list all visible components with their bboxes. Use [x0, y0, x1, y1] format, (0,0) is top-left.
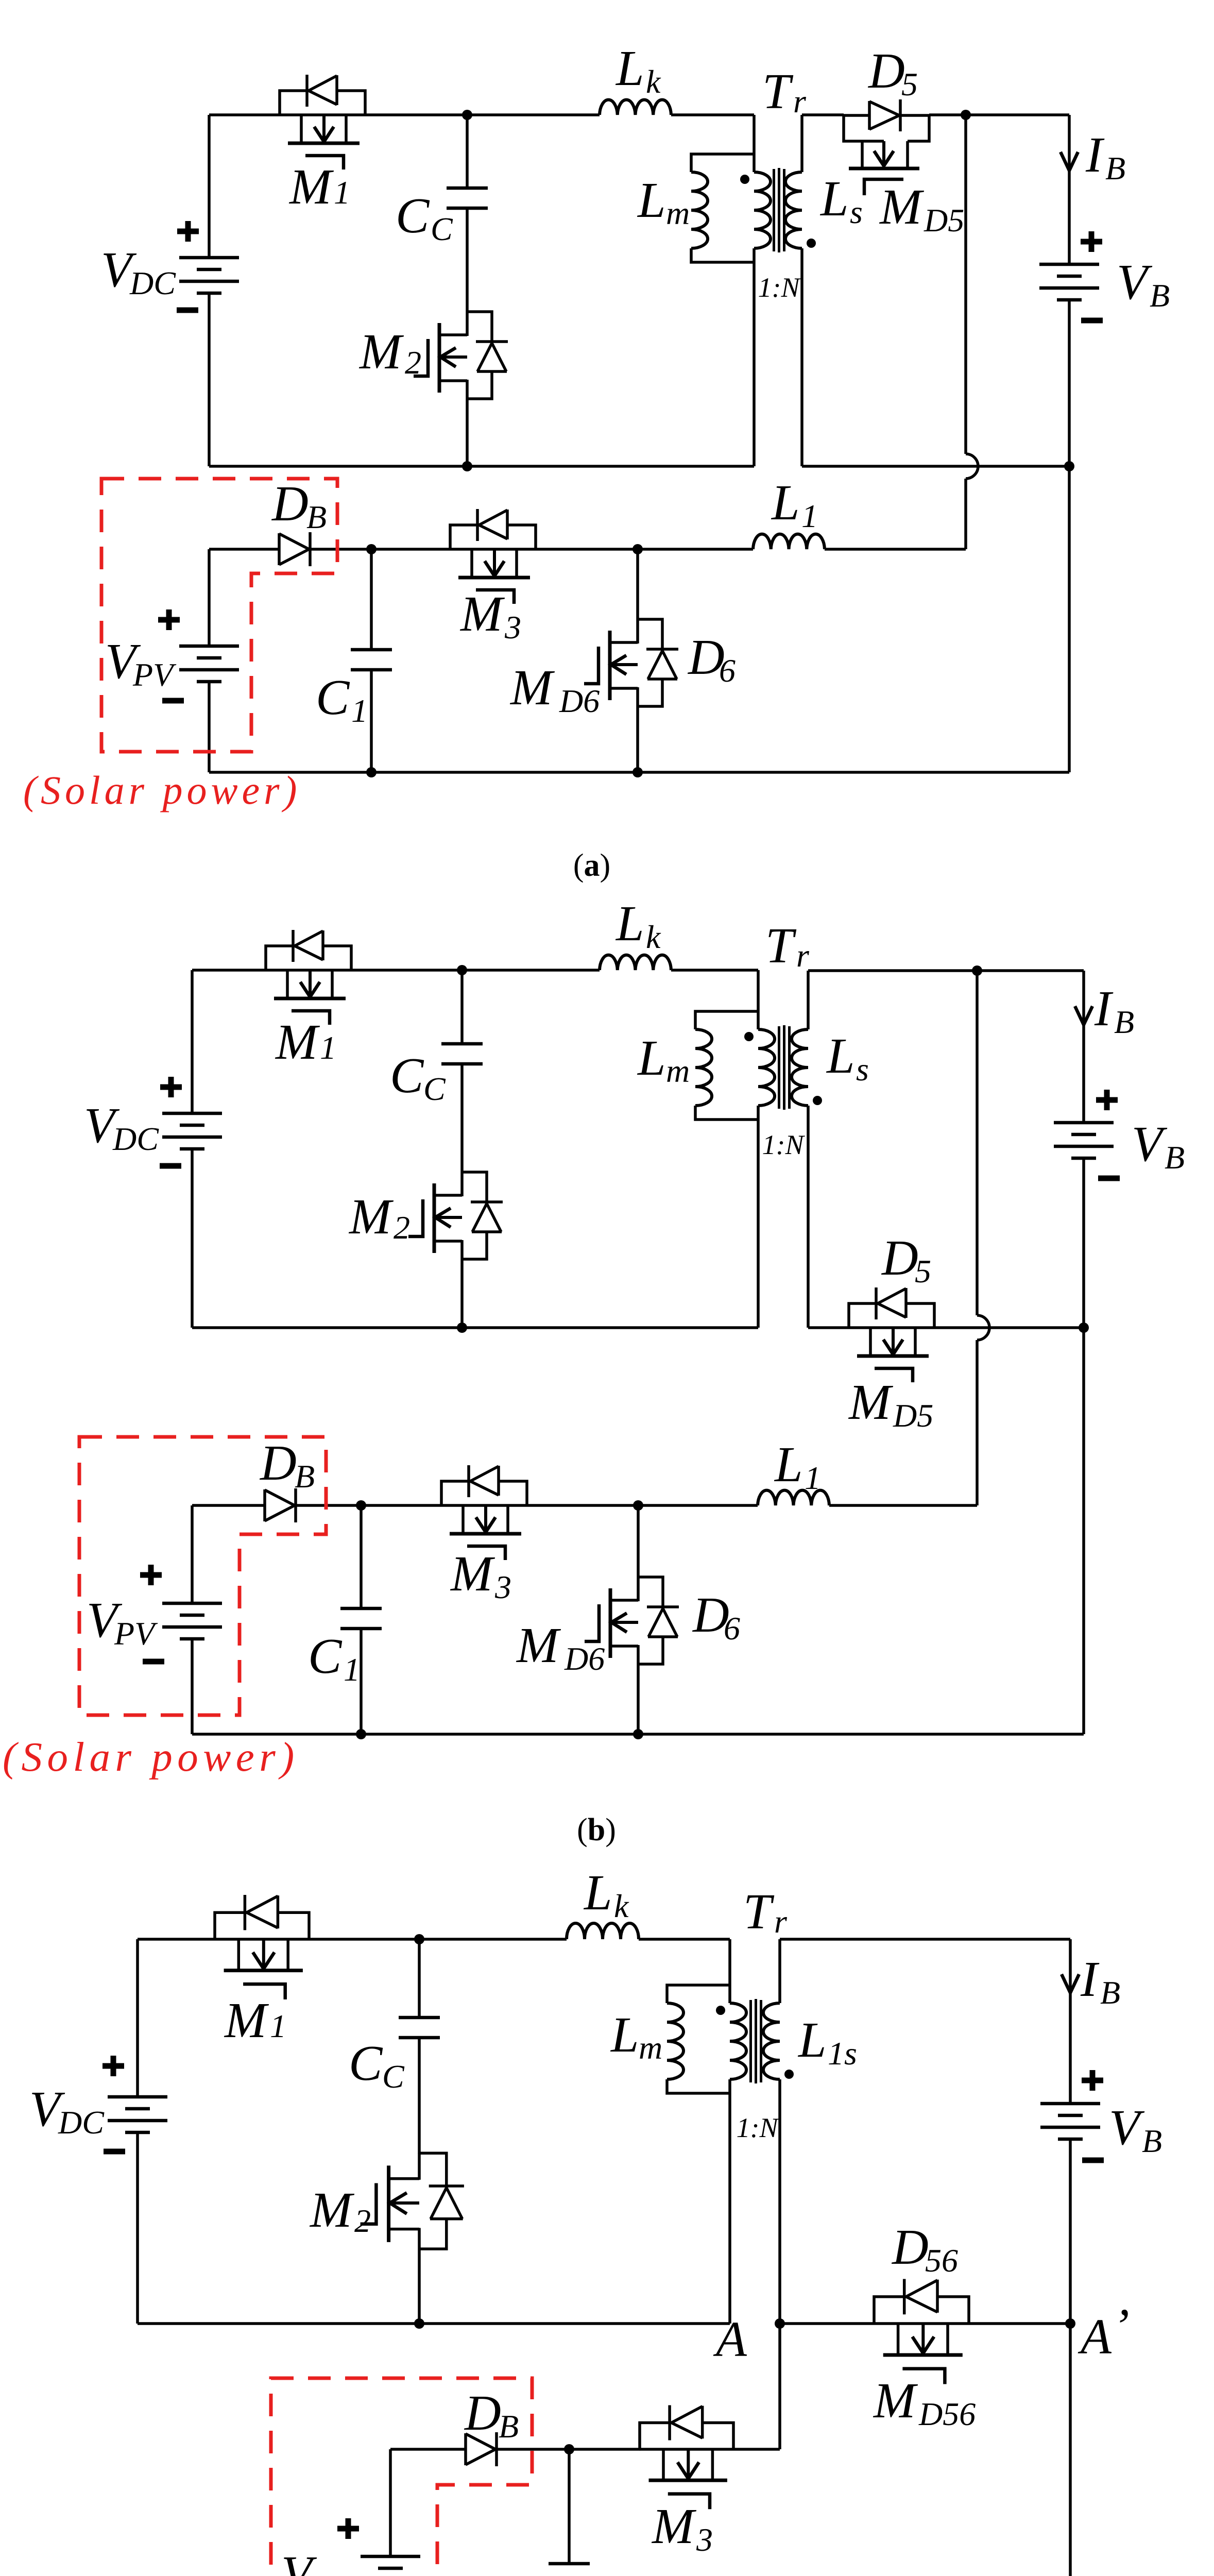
label VPV plus (b): [140, 1565, 162, 1585]
solar power dashed box (a): [101, 479, 337, 752]
transformer Tr secondary phase dot (c): [784, 2070, 794, 2079]
inductor Lk (a): [600, 100, 671, 115]
wire node to L1 (a): [638, 548, 753, 551]
transistor MD56 with diode D56 (c): [874, 2279, 969, 2384]
wire top rail left segment (a): [209, 113, 280, 116]
inductor Lk (b): [600, 955, 671, 970]
svg-text:k: k: [614, 1888, 629, 1924]
svg-text:D: D: [464, 2385, 501, 2441]
capacitor CC (b): [441, 1044, 483, 1064]
wire mid vertical upper (b): [976, 971, 979, 1315]
transformer Tr secondary coil (c): [763, 2003, 780, 2079]
transformer Tr primary phase dot (b): [744, 1032, 754, 1041]
svg-text:1: 1: [334, 174, 350, 211]
node A (c): [775, 2318, 785, 2329]
transformer Tr core (a): [774, 168, 784, 252]
svg-text:M: M: [224, 1993, 269, 2048]
wire M3 to node A branch (c): [733, 2448, 780, 2451]
wire transformer primary vertical (c): [728, 1939, 731, 2324]
svg-text:M: M: [358, 324, 404, 380]
transistor MD6 with diode D6 (a): [584, 619, 678, 706]
transistor M1 (c): [215, 1895, 309, 1999]
capacitor C1 (b): [340, 1608, 382, 1629]
wire hop over MD5 wire (b): [977, 1315, 989, 1340]
wire top rail left segment (b): [192, 969, 266, 972]
svg-text:k: k: [646, 919, 661, 955]
transformer Tr primary coil on line (c): [730, 2003, 746, 2079]
node C1 bottom junction (b): [356, 1729, 366, 1739]
svg-text:(b): (b): [577, 1812, 616, 1848]
svg-text:C: C: [423, 1071, 446, 1107]
svg-text:D6: D6: [564, 1640, 605, 1677]
svg-text:L: L: [826, 1028, 855, 1084]
wire right vertical to VB (c): [1069, 1939, 1072, 2104]
wire top rail left segment (c): [138, 1938, 215, 1941]
wire MD6 branch top (b): [637, 1505, 640, 1577]
label VDC plus (a): [177, 221, 199, 242]
node D5 output junction (a): [961, 110, 971, 120]
svg-text:D: D: [867, 43, 905, 99]
wire VDC left vertical top (b): [191, 970, 194, 1113]
label VPV minus (a): [162, 698, 184, 704]
svg-text:(a): (a): [573, 848, 610, 883]
transistor MD6 with diode D6 (b): [585, 1577, 679, 1664]
transformer Tr secondary coil (a): [785, 172, 802, 248]
capacitor C1 (a): [351, 650, 392, 670]
svg-text:C: C: [431, 211, 453, 247]
wire VDC left vertical bottom (c): [136, 2132, 139, 2324]
transformer Tr secondary phase dot (a): [807, 239, 816, 248]
svg-text:M: M: [873, 2373, 918, 2429]
wire M1 to node (c): [309, 1938, 419, 1941]
capacitor C1 (c): [549, 2564, 590, 2576]
svg-text:C: C: [382, 2058, 405, 2095]
wire Lk to transformer (c): [639, 1938, 730, 1941]
svg-text:M: M: [348, 1189, 394, 1245]
svg-text:C: C: [308, 1629, 343, 1684]
wire VPV bottom (b): [191, 1639, 194, 1734]
wire DB to node (a): [310, 548, 371, 551]
wire VPV top to DB (a): [209, 549, 279, 646]
current arrow IB (c): [1062, 1974, 1079, 1993]
svg-text:s: s: [850, 194, 863, 230]
wire node to Lk (a): [467, 113, 600, 116]
wire node A to D56 (c): [780, 2322, 874, 2325]
svg-text:6: 6: [719, 652, 736, 689]
wire hop over secondary bottom (a): [966, 454, 978, 479]
wire M3 to node (b): [527, 1504, 638, 1507]
label VDC minus (c): [104, 2149, 125, 2155]
svg-text:B: B: [295, 1458, 315, 1495]
svg-text:L: L: [615, 41, 644, 96]
node DB-C1-M3 junction (c): [564, 2444, 574, 2454]
wire secondary top (a): [802, 115, 844, 172]
svg-text:A: A: [1078, 2309, 1112, 2365]
wire node to L1 (b): [638, 1504, 758, 1507]
svg-text:M: M: [275, 1014, 320, 1070]
svg-text:2: 2: [394, 1209, 410, 1246]
label VDC plus (b): [160, 1077, 182, 1097]
wire transformer primary vertical (b): [757, 970, 760, 1328]
node CC-M2 bottom junction (b): [457, 1323, 467, 1333]
svg-text:B: B: [1150, 277, 1170, 314]
svg-text:m: m: [666, 1053, 690, 1089]
svg-text:PV: PV: [309, 2569, 353, 2576]
svg-text:L: L: [615, 896, 644, 952]
label VDC minus (b): [160, 1163, 181, 1169]
svg-text:B: B: [1100, 1974, 1120, 2011]
solar power dashed box (b): [79, 1437, 326, 1715]
label VPV plus (a): [158, 609, 180, 630]
svg-text:B: B: [1105, 150, 1125, 187]
wire C1 branch top (c): [568, 2449, 571, 2564]
svg-text:V: V: [1117, 255, 1153, 310]
inductor Lk (c): [567, 1923, 639, 1939]
wire VB to bottom node (a): [1068, 300, 1071, 466]
svg-text:r: r: [774, 1903, 788, 1940]
svg-text:M: M: [459, 586, 505, 642]
svg-text:M: M: [848, 1375, 894, 1430]
wire Lk to transformer (a): [671, 113, 754, 116]
wire VDC left vertical top (a): [208, 115, 211, 258]
svg-text:I: I: [1085, 127, 1105, 183]
label VDC plus (c): [102, 2056, 124, 2076]
node M3-MD6-L1 junction (a): [632, 544, 643, 554]
transistor MD5 with diode D5 (b): [849, 1287, 934, 1382]
svg-text:6: 6: [724, 1610, 740, 1647]
wire CC to M2 (c): [418, 2038, 421, 2154]
svg-text:M: M: [651, 2499, 697, 2554]
diode DB (b): [265, 1488, 296, 1522]
svg-text:I: I: [1094, 981, 1114, 1037]
wire C1 branch bottom (a): [370, 670, 373, 772]
wire bottom rail (b): [192, 1733, 1084, 1736]
transformer Tr secondary coil (b): [792, 1029, 808, 1106]
wire node to M3 (a): [371, 548, 450, 551]
svg-text:L: L: [637, 1030, 666, 1086]
wire node to CC (b): [460, 970, 464, 1044]
svg-text:m: m: [639, 2029, 662, 2066]
svg-text:V: V: [1109, 2100, 1145, 2156]
node VB bottom junction (b): [1079, 1323, 1089, 1333]
svg-text:M: M: [288, 159, 334, 215]
node VB bottom junction (a): [1064, 461, 1074, 471]
capacitor CC (c): [399, 2018, 440, 2038]
wire VDC left vertical top (c): [136, 1939, 139, 2097]
svg-text:1s: 1s: [828, 2035, 857, 2072]
svg-text:1: 1: [801, 498, 818, 534]
wire secondary to node A (c): [778, 2079, 781, 2324]
wire node to right corner (a): [966, 113, 1069, 116]
solar power dashed box (c): [271, 2378, 532, 2576]
wire L1 to mid vertical (b): [829, 1504, 977, 1507]
svg-text:B: B: [306, 499, 327, 535]
transformer Tr primary winding Lm (c): [667, 1985, 730, 2093]
svg-text:DC: DC: [129, 265, 176, 301]
wire MD6 branch top (a): [636, 549, 639, 619]
svg-text:D: D: [271, 476, 309, 532]
svg-text:2: 2: [354, 2202, 371, 2239]
svg-text:PV: PV: [132, 656, 177, 693]
svg-text:T: T: [743, 1884, 775, 1940]
wire CC to M2 (a): [466, 208, 469, 312]
svg-text:L: L: [797, 2012, 827, 2068]
label VB plus (a): [1081, 231, 1102, 252]
svg-text:1:N: 1:N: [737, 2112, 780, 2143]
svg-text:L: L: [771, 475, 800, 531]
svg-text:m: m: [666, 195, 690, 231]
svg-text:1: 1: [351, 692, 368, 729]
svg-text:PV: PV: [114, 1615, 158, 1652]
svg-text:C: C: [396, 188, 430, 244]
diode DB (a): [279, 532, 310, 566]
svg-text:C: C: [349, 2036, 383, 2091]
node M1-CC junction (a): [462, 110, 472, 120]
svg-text:2: 2: [405, 344, 421, 381]
svg-text:L: L: [637, 173, 666, 228]
svg-text:1: 1: [320, 1029, 336, 1066]
transistor M3 (c): [640, 2405, 733, 2510]
svg-text:C: C: [316, 670, 350, 725]
wire node to M3 (b): [361, 1504, 441, 1507]
wire node to CC (a): [466, 115, 469, 188]
svg-text:s: s: [856, 1051, 869, 1088]
wire MD5 to node (a): [929, 113, 966, 116]
svg-text:M: M: [879, 179, 925, 235]
wire C1 branch top (b): [360, 1505, 363, 1608]
wire bottom rail of VDC loop (a): [209, 465, 754, 468]
svg-text:5: 5: [901, 66, 918, 103]
svg-text:B: B: [499, 2408, 519, 2445]
svg-text:3: 3: [494, 1569, 511, 1605]
wire VDC left vertical bottom (a): [208, 293, 211, 466]
label VPV plus (c): [337, 2518, 359, 2539]
transformer Tr primary phase dot (c): [716, 2006, 725, 2015]
wire right vertical to VB (a): [1068, 115, 1071, 264]
transformer Tr primary coil on line (a): [754, 172, 771, 248]
wire VDC left vertical bottom (b): [191, 1149, 194, 1328]
node CC-M2 bottom junction (c): [414, 2318, 424, 2329]
wire VPV top to DB (b): [192, 1505, 265, 1603]
wire MD6 branch bottom (a): [636, 706, 639, 772]
transformer Tr secondary phase dot (b): [813, 1096, 822, 1105]
transistor M2 (c): [361, 2153, 464, 2249]
wire right vertical lower (b): [1082, 1328, 1085, 1734]
label VB minus (c): [1082, 2158, 1104, 2163]
battery VDC (a): [179, 258, 239, 293]
wire CC to M2 (b): [460, 1064, 464, 1172]
svg-text:B: B: [1165, 1139, 1185, 1176]
wire M2 to bottom rail (c): [418, 2249, 421, 2324]
transformer Tr primary winding Lm (a): [691, 154, 754, 262]
label VB plus (c): [1082, 2070, 1103, 2091]
battery VDC (c): [108, 2097, 167, 2132]
svg-text:3: 3: [696, 2521, 713, 2558]
battery VB (a): [1039, 264, 1099, 300]
svg-text:V: V: [1132, 1116, 1168, 1172]
svg-text:1:N: 1:N: [758, 272, 801, 303]
svg-text:56: 56: [925, 2242, 958, 2279]
node CC-M2 bottom junction (a): [462, 461, 472, 471]
label VDC minus (a): [177, 308, 198, 313]
battery VDC (b): [162, 1113, 222, 1149]
transistor M2 (b): [408, 1172, 503, 1259]
wire Aprime down to bottom rail (c): [1069, 2324, 1072, 2576]
svg-text:D5: D5: [924, 202, 964, 239]
label VPV minus (b): [143, 1659, 164, 1665]
wire MD5 to node (b): [934, 1326, 1084, 1329]
wire node to M3 (c): [569, 2448, 640, 2451]
svg-text:M: M: [450, 1546, 495, 1602]
wire VPV top to DB (c): [390, 2449, 466, 2556]
wire right vertical to VB (b): [1082, 971, 1085, 1123]
svg-text:r: r: [796, 937, 810, 974]
svg-text:D: D: [881, 1230, 918, 1286]
wire node to Lk (c): [419, 1938, 567, 1941]
battery VPV (a): [179, 646, 239, 682]
transformer Tr core (b): [779, 1025, 790, 1110]
node M3-MD6-L1 junction (b): [633, 1500, 643, 1511]
wire M2 to bottom rail (b): [460, 1259, 464, 1328]
transistor M3 (a): [450, 509, 536, 604]
svg-text:1:N: 1:N: [762, 1129, 806, 1160]
node M1-CC junction (b): [457, 965, 467, 975]
transformer Tr primary winding Lm (b): [695, 1011, 758, 1120]
label VB minus (b): [1098, 1176, 1120, 1181]
node secondary top junction (b): [972, 965, 982, 976]
inductor L1 (b): [758, 1490, 829, 1505]
svg-text:(Solar power): (Solar power): [23, 768, 301, 812]
svg-text:D5: D5: [893, 1397, 933, 1434]
wire bottom rail of VDC loop (c): [138, 2322, 730, 2325]
svg-text:k: k: [646, 63, 661, 100]
wire M3 to node (a): [536, 548, 638, 551]
svg-text:3: 3: [504, 609, 521, 646]
wire VPV bottom (a): [208, 682, 211, 772]
wire transformer primary vertical (a): [753, 115, 756, 466]
svg-text:(Solar power): (Solar power): [3, 1734, 299, 1780]
wire node A down to M3 wire (c): [778, 2324, 781, 2449]
svg-text:1: 1: [344, 1651, 360, 1688]
wire mid vertical lower (a): [964, 479, 967, 549]
svg-text:D6: D6: [559, 683, 600, 719]
wire M2 to bottom rail (a): [466, 399, 469, 466]
svg-text:M: M: [509, 660, 555, 716]
node MD6 bottom junction (a): [632, 767, 643, 777]
node Aprime (c): [1065, 2318, 1075, 2329]
wire VB to bottom node (b): [1082, 1158, 1085, 1328]
label VB plus (b): [1096, 1090, 1118, 1110]
wire M1 to node (b): [351, 969, 462, 972]
battery VB (c): [1040, 2104, 1100, 2139]
wire bottom rail of VDC loop (b): [192, 1326, 758, 1329]
svg-text:1: 1: [270, 2008, 286, 2044]
svg-text:T: T: [765, 918, 797, 974]
svg-text:T: T: [762, 64, 794, 120]
wire node to right corner (b): [977, 969, 1084, 972]
wire M1 to node (a): [365, 113, 467, 116]
svg-text:I: I: [1080, 1952, 1100, 2007]
svg-text:D: D: [259, 1435, 297, 1491]
wire secondary bottom (a): [802, 248, 1069, 466]
svg-text:DC: DC: [112, 1121, 159, 1157]
battery VB (b): [1054, 1123, 1114, 1158]
svg-text:B: B: [1114, 1004, 1134, 1040]
transistor M3 (b): [441, 1465, 527, 1560]
svg-text:L: L: [819, 171, 849, 227]
wire right vertical lower (a): [1068, 466, 1071, 772]
transformer Tr core (c): [751, 1999, 761, 2083]
svg-text:D56: D56: [918, 2396, 976, 2432]
current arrow IB (b): [1075, 1006, 1092, 1025]
transformer Tr primary coil on line (b): [758, 1029, 775, 1106]
wire bottom rail (a): [209, 771, 1069, 774]
transistor M1 (b): [266, 930, 351, 1025]
svg-text:D: D: [891, 2219, 929, 2275]
diode D5 with transistor MD5 (a): [844, 99, 929, 195]
wire secondary bottom (b): [808, 1106, 849, 1328]
svg-text:C: C: [390, 1048, 424, 1104]
wire C1 branch top (a): [370, 549, 373, 650]
transformer Tr primary phase dot (a): [740, 175, 749, 184]
capacitor CC (a): [447, 188, 488, 208]
svg-text:L: L: [774, 1437, 803, 1493]
svg-text:’: ’: [1113, 2299, 1130, 2354]
wire VB to node Aprime (c): [1069, 2139, 1072, 2324]
wire secondary top (c): [780, 1939, 1070, 2003]
wire D56 to node Aprime (c): [969, 2322, 1070, 2325]
svg-text:C: C: [495, 2570, 530, 2576]
svg-text:1: 1: [805, 1460, 821, 1496]
node C1 bottom junction (a): [366, 767, 377, 777]
transistor M2 (a): [414, 312, 508, 399]
wire mid vertical lower (b): [976, 1340, 979, 1505]
wire L1 to mid vertical (a): [825, 548, 966, 551]
battery VPV (c): [361, 2556, 420, 2576]
wire secondary top (b): [808, 971, 977, 1029]
wire mid vertical upper (a): [964, 115, 967, 454]
node DB-C1-M3 junction (a): [366, 544, 377, 554]
inductor L1 (a): [753, 534, 825, 549]
svg-text:A: A: [713, 2312, 747, 2367]
svg-text:DC: DC: [58, 2104, 105, 2141]
wire DB to node (b): [296, 1504, 361, 1507]
wire C1 branch bottom (b): [360, 1629, 363, 1734]
wire node to Lk (b): [462, 969, 600, 972]
wire Lk to transformer (b): [671, 969, 758, 972]
battery VPV (b): [162, 1603, 222, 1639]
svg-text:L: L: [610, 2007, 639, 2063]
node M1-CC junction (c): [414, 1934, 424, 1944]
label VB minus (a): [1081, 318, 1103, 324]
current arrow IB (a): [1061, 152, 1078, 171]
svg-text:5: 5: [915, 1253, 931, 1290]
node MD6 bottom junction (b): [633, 1729, 643, 1739]
svg-text:B: B: [1142, 2123, 1162, 2159]
svg-text:M: M: [516, 1618, 561, 1673]
svg-text:M: M: [309, 2182, 355, 2238]
transistor M1 (a): [280, 75, 365, 170]
node DB-C1-M3 junction (b): [356, 1500, 366, 1511]
diode DB (c): [466, 2432, 497, 2466]
wire MD6 branch bottom (b): [637, 1664, 640, 1734]
svg-text:L: L: [583, 1865, 612, 1921]
wire DB to node (c): [497, 2448, 569, 2451]
wire node to CC (c): [418, 1939, 421, 2018]
